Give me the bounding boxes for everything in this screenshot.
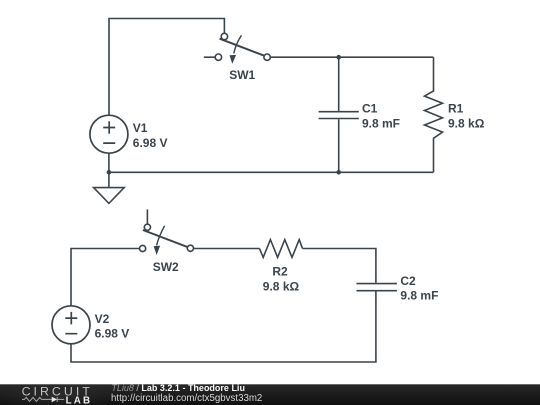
node bottom of C1 (junction dot) <box>336 170 341 175</box>
svg-text:V1: V1 <box>133 121 148 135</box>
svg-text:TLiu8 / Lab 3.2.1 - Theodore L: TLiu8 / Lab 3.2.1 - Theodore Liu <box>111 383 245 393</box>
svg-text:9.8 kΩ: 9.8 kΩ <box>448 116 485 130</box>
svg-text:9.8 mF: 9.8 mF <box>362 116 400 130</box>
switch SW1 pin 1 terminal circle <box>221 33 227 39</box>
svg-text:6.98 V: 6.98 V <box>133 136 168 150</box>
switch SW2 arrow <box>157 226 165 246</box>
switch SW2 blade <box>143 230 187 247</box>
svg-text:http://circuitlab.com/ctx5gbvs: http://circuitlab.com/ctx5gbvst33m2 <box>111 393 262 404</box>
ground <box>94 188 125 204</box>
voltage source V2 <box>52 306 90 344</box>
svg-text:9.8 kΩ: 9.8 kΩ <box>263 279 300 293</box>
wire V1 top to SW1 top terminal <box>109 19 224 116</box>
svg-text:C2: C2 <box>400 274 416 288</box>
svg-text:LAB: LAB <box>66 395 93 405</box>
wire SW2 to R2 <box>194 248 260 250</box>
switch SW1 open contact stub <box>204 56 215 58</box>
CircuitLab logo resistor-diode glyph <box>22 397 64 402</box>
svg-text:9.8 mF: 9.8 mF <box>400 288 438 302</box>
wire V2 top to SW2 left terminal <box>71 249 140 307</box>
svg-text:R1: R1 <box>448 102 464 116</box>
svg-text:C1: C1 <box>362 102 378 116</box>
switch SW2 right terminal circle <box>187 245 193 251</box>
node V1 bottom rail junction dot <box>107 170 112 175</box>
switch SW1 blade <box>220 39 265 56</box>
resistor R2 <box>260 240 303 258</box>
footer bar <box>0 384 540 405</box>
svg-text:SW2: SW2 <box>153 260 179 274</box>
svg-text:SW1: SW1 <box>229 68 255 82</box>
switch SW2 left terminal circle <box>140 245 146 251</box>
wire V1 bottom to ground <box>108 153 110 187</box>
switch SW2 dangling stub <box>146 209 148 224</box>
wire SW1 to top rail <box>270 56 433 58</box>
resistor R1 <box>425 57 443 172</box>
switch SW1 pin 2 terminal circle <box>264 54 270 60</box>
svg-text:6.98 V: 6.98 V <box>95 326 130 340</box>
switch SW2 top terminal circle <box>144 224 150 230</box>
voltage source V1 <box>90 115 128 153</box>
svg-text:R2: R2 <box>272 265 288 279</box>
switch SW1 arrow <box>234 35 242 53</box>
svg-text:V2: V2 <box>95 312 110 326</box>
capacitor C1 <box>338 57 340 111</box>
bottom rail wire circuit 1 <box>109 171 434 173</box>
capacitor C2 <box>357 283 397 285</box>
node top of C1 (junction dot) <box>336 55 341 60</box>
wire R2 to C2 <box>303 249 376 283</box>
